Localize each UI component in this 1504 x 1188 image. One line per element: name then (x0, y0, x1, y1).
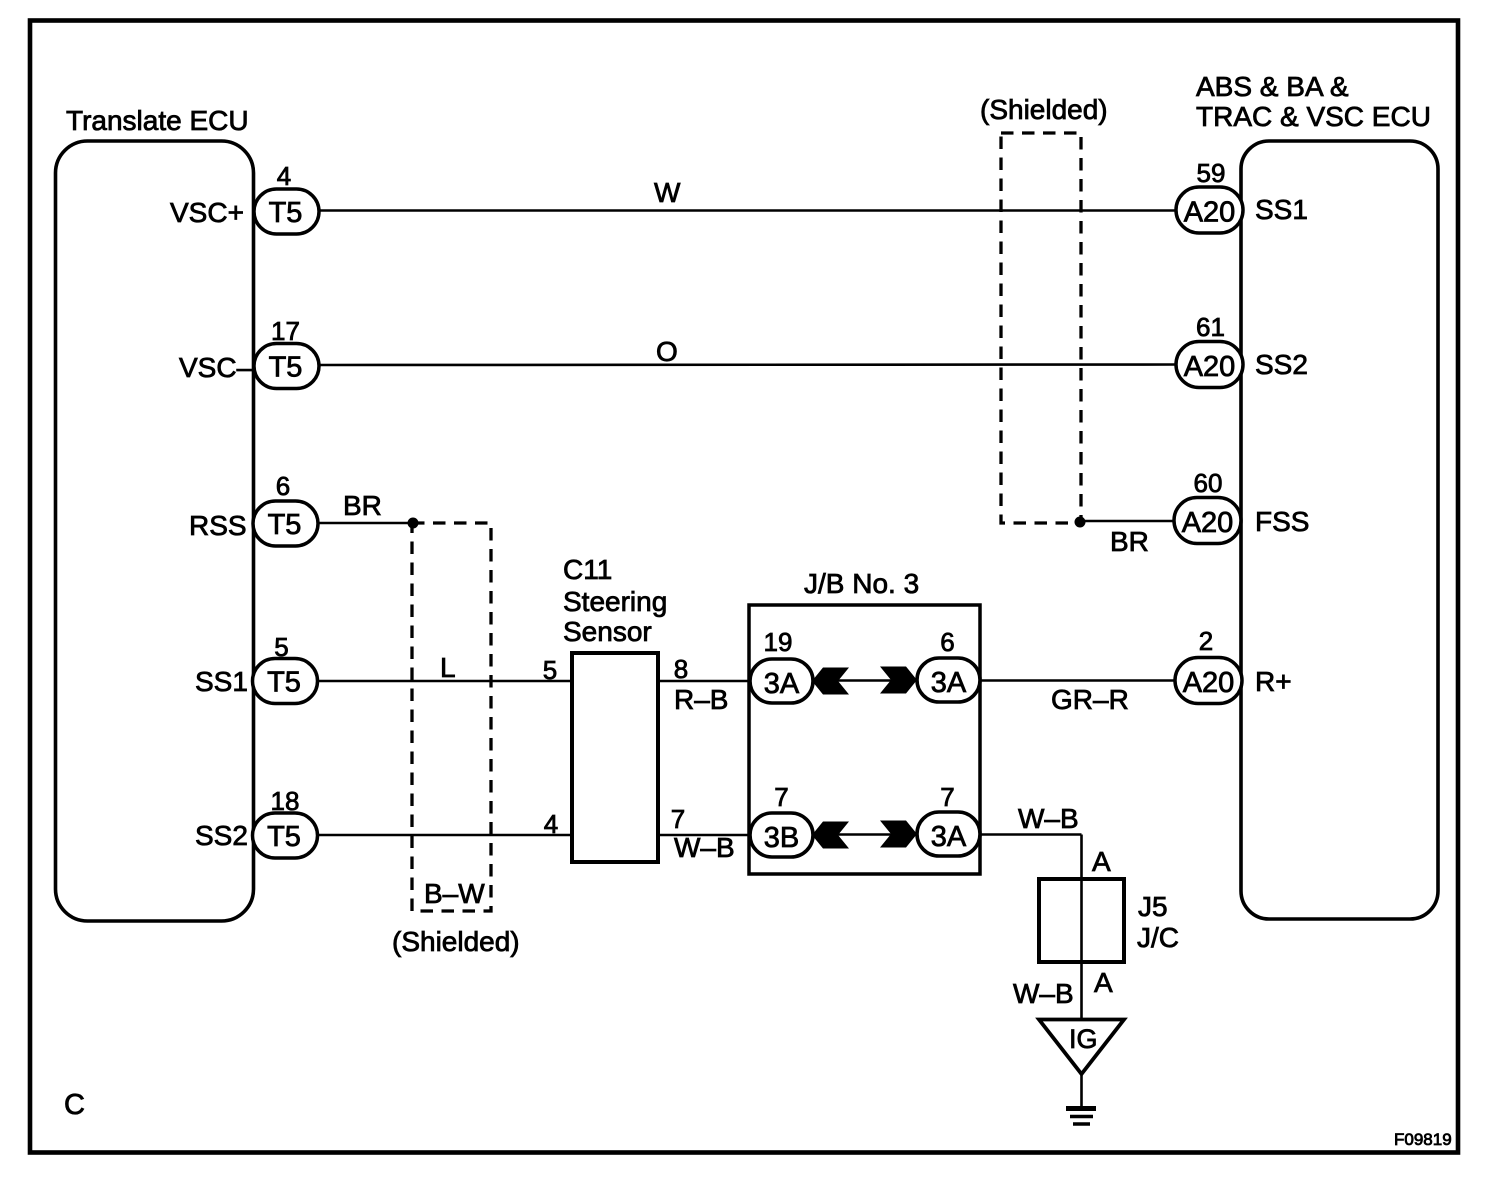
connector A20 pin 61 / SS2 (1176, 312, 1308, 388)
wire inside J/B row1 (813, 679, 916, 682)
svg-text:SS2: SS2 (195, 820, 248, 851)
connector T5 pin 17 / VSC- (179, 316, 319, 389)
svg-text:T5: T5 (267, 821, 301, 853)
svg-text:3A: 3A (931, 821, 967, 853)
steering sensor C11 (563, 554, 667, 862)
svg-text:8: 8 (674, 654, 688, 684)
svg-text:7: 7 (671, 804, 685, 834)
svg-text:A: A (1092, 846, 1111, 877)
arrow right row1 (880, 667, 917, 694)
svg-text:W–B: W–B (674, 832, 735, 863)
svg-text:GR–R: GR–R (1051, 684, 1129, 715)
svg-text:17: 17 (271, 316, 300, 346)
svg-text:C11: C11 (563, 554, 612, 585)
wire IG to ground (1080, 1074, 1083, 1108)
svg-text:(Shielded): (Shielded) (392, 926, 520, 957)
wire W: T5-4 to A20-59 (319, 177, 1177, 211)
svg-text:W–B: W–B (1018, 803, 1079, 834)
svg-text:BR: BR (1110, 526, 1149, 557)
svg-text:A20: A20 (1183, 667, 1235, 699)
connector T5 pin 4 / VSC+ (170, 161, 319, 234)
ground (1066, 1109, 1096, 1125)
svg-text:7: 7 (940, 782, 954, 812)
connector T5 pin 18 / SS2 (195, 786, 318, 858)
svg-text:2: 2 (1199, 626, 1213, 656)
svg-text:O: O (656, 336, 678, 367)
svg-text:SS1: SS1 (1255, 194, 1308, 225)
junction dot FSS/shield (1075, 517, 1086, 528)
svg-text:W–B: W–B (1013, 978, 1074, 1009)
svg-text:4: 4 (277, 161, 291, 191)
svg-text:3A: 3A (764, 668, 800, 700)
svg-text:A20: A20 (1184, 351, 1236, 383)
svg-text:19: 19 (764, 627, 793, 657)
wire inside J/B row2 (813, 833, 916, 836)
svg-text:Sensor: Sensor (563, 616, 652, 647)
junction dot RSS/shield (408, 518, 419, 529)
connector A20 pin 60 / FSS (1174, 468, 1309, 544)
svg-text:T5: T5 (267, 667, 301, 699)
svg-text:ABS & BA &: ABS & BA & (1196, 71, 1349, 102)
svg-text:4: 4 (544, 809, 558, 839)
svg-text:61: 61 (1196, 312, 1225, 342)
power symbol IG (1039, 1020, 1124, 1075)
connector A20 pin 59 / SS1 (1176, 158, 1308, 233)
wire O: T5-17 to A20-61 (319, 336, 1177, 367)
svg-text:L: L (440, 652, 456, 683)
svg-text:F09819: F09819 (1394, 1130, 1452, 1149)
wire R-B: C11 pin 8 to 3A (658, 654, 751, 715)
svg-text:5: 5 (274, 632, 288, 662)
svg-text:B–W: B–W (424, 878, 485, 909)
svg-text:FSS: FSS (1255, 506, 1309, 537)
svg-text:J/C: J/C (1137, 922, 1179, 953)
svg-text:A20: A20 (1184, 197, 1236, 229)
connector 3B pin 7 (750, 782, 813, 857)
shield box right (Shielded) (980, 94, 1108, 523)
svg-text:C: C (64, 1089, 85, 1121)
svg-text:T5: T5 (269, 352, 303, 384)
svg-text:A: A (1094, 967, 1113, 998)
svg-text:J/B No. 3: J/B No. 3 (804, 568, 919, 599)
arrow left row2 (812, 822, 849, 849)
ECU: ABS & BA & TRAC & VSC ECU (1196, 71, 1438, 919)
wire BR: T5-6 to shield (318, 490, 413, 523)
wire: T5-18 to C11 pin 4 (318, 809, 572, 839)
wire W-B: J5 pin A to IG (1013, 962, 1113, 1019)
svg-text:W: W (654, 177, 681, 208)
svg-text:R–B: R–B (674, 684, 728, 715)
svg-text:J5: J5 (1138, 891, 1168, 922)
svg-text:Translate ECU: Translate ECU (66, 105, 249, 136)
svg-text:R+: R+ (1255, 666, 1292, 697)
arrow right row2 (880, 821, 917, 848)
wire BR: shield to A20-60 (1080, 521, 1176, 557)
svg-text:A20: A20 (1182, 507, 1234, 539)
wire W-B: 3A-7 to J5 pin A (980, 803, 1111, 879)
svg-text:6: 6 (276, 471, 290, 501)
svg-text:SS1: SS1 (195, 666, 248, 697)
svg-text:BR: BR (343, 490, 382, 521)
junction block J/B No. 3 (749, 568, 980, 874)
svg-text:T5: T5 (269, 197, 303, 229)
svg-text:3B: 3B (764, 822, 799, 854)
junction connector J5 J/C (1039, 879, 1179, 962)
connector T5 pin 6 / RSS (189, 471, 318, 546)
connector T5 pin 5 / SS1 (195, 632, 318, 704)
wire GR-R: 3A-6 to A20-2 (980, 681, 1177, 716)
arrow left row1 (812, 668, 849, 695)
connector 3A pin 6 (917, 627, 980, 702)
connector 3A pin 7 (917, 782, 980, 856)
svg-text:Steering: Steering (563, 586, 667, 617)
shield box left (Shielded) (392, 523, 520, 957)
svg-text:VSC–: VSC– (179, 352, 253, 383)
svg-text:6: 6 (940, 627, 954, 657)
svg-text:(Shielded): (Shielded) (980, 94, 1108, 125)
svg-text:VSC+: VSC+ (170, 197, 244, 228)
svg-text:SS2: SS2 (1255, 349, 1308, 380)
svg-text:5: 5 (543, 655, 557, 685)
svg-text:59: 59 (1197, 158, 1226, 188)
svg-text:TRAC & VSC ECU: TRAC & VSC ECU (1196, 101, 1431, 132)
ECU: Translate ECU (56, 105, 254, 921)
wire W-B: C11 pin 7 to 3B (658, 804, 751, 863)
svg-text:RSS: RSS (189, 510, 247, 541)
svg-text:60: 60 (1194, 468, 1223, 498)
svg-text:T5: T5 (268, 509, 302, 541)
svg-text:18: 18 (271, 786, 300, 816)
connector 3A pin 19 (750, 627, 813, 703)
wire L: T5-5 to C11 pin 5 (318, 652, 572, 685)
svg-text:IG: IG (1069, 1024, 1098, 1054)
svg-text:3A: 3A (931, 667, 967, 699)
svg-text:7: 7 (774, 782, 788, 812)
connector A20 pin 2 / R+ (1175, 626, 1292, 704)
